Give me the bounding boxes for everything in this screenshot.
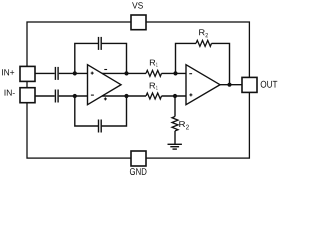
wire: top feedback loop right/down segment — [102, 43, 127, 73]
junction: A2 noninverting input node — [173, 94, 177, 98]
capacitor (feedback, bottom) — [99, 120, 102, 133]
junction: output node — [227, 83, 231, 87]
A1 noninverting input mark + — [91, 72, 94, 75]
junction: A1 top output node — [124, 71, 128, 75]
A1 noninverted output mark + — [104, 97, 107, 100]
wire: capacitor to A1 inverting input — [59, 95, 88, 97]
capacitor (series, IN- path) — [55, 90, 58, 103]
wire: bottom feedback loop left/down segment — [75, 96, 98, 126]
IC package outline — [27, 22, 249, 158]
label IN+ — [2, 69, 14, 75]
op-amp A1 (fully differential) — [88, 65, 122, 105]
junction: A2 inverting input node — [173, 71, 177, 75]
wire: IN+ box to input capacitor — [35, 72, 55, 74]
A1 inverting input mark - — [91, 94, 94, 96]
label OUT — [261, 81, 278, 88]
junction: IN+ line to top feedback cap — [73, 71, 77, 75]
op-amp A2 — [186, 65, 220, 105]
label GND — [130, 168, 147, 175]
resistor R2 (to ground) — [172, 117, 178, 131]
wire: R2 feedback loop up segment — [176, 43, 197, 73]
capacitor (series, IN+ path) — [55, 67, 58, 80]
label R2 (to ground) — [179, 121, 185, 127]
pin VS — [131, 15, 146, 30]
wire: R1 top to A2 inverting input — [162, 72, 187, 74]
A1 inverted output mark - — [104, 69, 107, 71]
pin IN+ — [20, 66, 35, 81]
label R1 (bottom) — [150, 83, 156, 89]
resistor R2 (feedback) — [196, 40, 212, 46]
label R1 (top) — [150, 60, 155, 66]
junction: A1 bottom output node — [124, 94, 128, 98]
wire: node to grounded R2 — [174, 96, 176, 117]
wire: capacitor to A1 noninverting input — [59, 72, 88, 74]
resistor R1 (top) — [146, 70, 162, 76]
wire: IN- box to input capacitor — [35, 95, 55, 97]
wire: R2 feedback loop down to output node — [212, 43, 230, 84]
pin GND — [131, 151, 146, 166]
wire: A1 top output to R1 — [102, 72, 146, 74]
wire: bottom feedback loop right/up segment — [102, 96, 127, 126]
wire: R1 bottom to A2 noninverting input — [162, 95, 187, 97]
A2 noninverting input mark + — [189, 93, 192, 96]
wire: A1 bottom output to R1 — [102, 95, 146, 97]
label R2 (feedback) — [199, 29, 205, 35]
capacitor (feedback, top) — [99, 37, 102, 50]
label IN- — [5, 90, 15, 96]
wire: R2 to ground symbol — [174, 131, 176, 144]
pin IN- — [20, 88, 35, 103]
junction: IN- line to bottom feedback cap — [73, 94, 77, 98]
ground — [168, 144, 182, 149]
A2 inverting input mark - — [189, 73, 192, 75]
pin OUT — [242, 77, 257, 92]
resistor R1 (bottom) — [146, 93, 162, 99]
label VS — [132, 2, 143, 8]
wire: top feedback loop left/up segment — [75, 43, 98, 73]
wire: A2 output to OUT box — [220, 84, 242, 86]
